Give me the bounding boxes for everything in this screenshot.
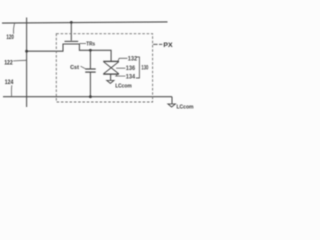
wire: LC bottom stem bbox=[110, 74, 112, 80]
capacitor Cst bottom plate bbox=[85, 71, 96, 73]
node: junction dot Cst / common bus bbox=[89, 95, 92, 98]
leader for 124 bbox=[10, 85, 12, 96]
PX dashed box bbox=[56, 34, 152, 102]
leader for 132 bbox=[118, 58, 128, 61]
data line 122 (vertical) bbox=[26, 18, 28, 108]
leader for PX label bbox=[153, 43, 162, 45]
LC cell top plate 132 bbox=[103, 60, 119, 62]
bracket for 130 bbox=[136, 57, 140, 78]
ground LCcom (bottom right) bbox=[168, 104, 176, 107]
svg-text:PX: PX bbox=[163, 42, 173, 49]
leader for 134 bbox=[116, 74, 126, 76]
transistor TRs channel + source/drain leads bbox=[27, 44, 112, 61]
leader for Cst bbox=[81, 66, 86, 69]
node: junction dot data line / source lead bbox=[25, 50, 28, 53]
svg-text:LCcom: LCcom bbox=[115, 83, 132, 89]
svg-text:LCcom: LCcom bbox=[177, 104, 194, 110]
capacitor Cst top lead bbox=[89, 50, 91, 69]
leader for 122 bbox=[13, 59, 26, 62]
svg-text:124: 124 bbox=[5, 79, 14, 86]
LC cell bottom plate 134 bbox=[103, 73, 119, 75]
capacitor Cst top plate bbox=[85, 68, 96, 70]
common bus 124 (bottom horizontal) bbox=[3, 96, 172, 98]
wire: gate drop to TFT gate bbox=[70, 22, 72, 40]
svg-text:Cst: Cst bbox=[70, 65, 79, 71]
ground LCcom (under LC cell) bbox=[107, 80, 114, 83]
svg-text:136: 136 bbox=[126, 66, 136, 72]
svg-text:120: 120 bbox=[6, 34, 14, 41]
node: junction dot drain lead / Cst tap bbox=[89, 49, 92, 52]
svg-text:134: 134 bbox=[126, 74, 136, 80]
leader for 136 bbox=[116, 67, 125, 69]
leader for TRs bbox=[80, 43, 86, 45]
wire: bus corner down to LCcom ground bbox=[171, 97, 173, 104]
LC cell crossing diagonals 136 bbox=[104, 62, 119, 74]
svg-text:122: 122 bbox=[4, 59, 13, 66]
svg-text:TRs: TRs bbox=[86, 42, 95, 48]
svg-text:130: 130 bbox=[141, 65, 148, 71]
capacitor Cst bottom lead bbox=[89, 72, 91, 97]
gate line 120 (top horizontal bus) bbox=[2, 22, 168, 23]
svg-text:132: 132 bbox=[128, 57, 138, 63]
transistor TRs gate bar bbox=[65, 40, 79, 42]
node: junction dot gate line / gate drop bbox=[70, 21, 73, 24]
leader for 120 bbox=[14, 23, 15, 34]
